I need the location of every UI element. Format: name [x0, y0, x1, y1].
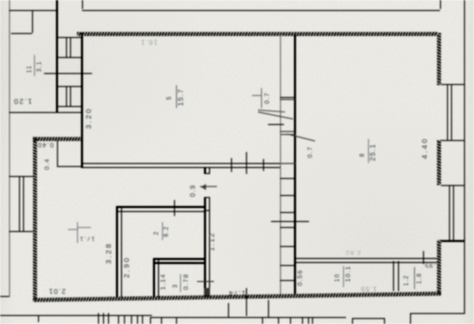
neighbor below window b1: [98, 313, 99, 324]
neighbor below stub d: [150, 318, 151, 324]
window1 glass: [66, 38, 67, 57]
tick y124: [268, 124, 284, 125]
window1 sill: [57, 57, 81, 58]
label 3.20: [85, 107, 92, 129]
neighbor below window c4: [137, 315, 138, 324]
long tick y221: [271, 221, 309, 222]
right window B top: [441, 185, 465, 186]
bottom neighbor line left: [0, 315, 152, 316]
right window A bottom: [441, 140, 464, 141]
label 1.8/1.2: [414, 267, 415, 289]
right wall hatch bottom: [437, 240, 441, 294]
rung y227: [280, 227, 295, 228]
tick left of wall: [196, 262, 204, 263]
bottom dim 2.01: [48, 287, 66, 294]
label 0.40: [37, 141, 54, 148]
neighbor above: left stub: [82, 0, 83, 9]
top-left box top edge: [9, 10, 57, 11]
lower loggia glass: [19, 177, 20, 231]
room 1 label 17.1: [77, 222, 78, 243]
label 0.7 second: [307, 146, 314, 158]
bottom dim 1.74: [228, 289, 246, 296]
neighbor below stub h2: [312, 317, 313, 324]
top hatched wall: [77, 32, 437, 36]
rung y246: [280, 246, 295, 247]
neighbor below stub h1: [308, 317, 309, 324]
lower loggia window top: [9, 176, 33, 177]
divider wall (double): [393, 261, 394, 291]
niche box left: [57, 140, 58, 166]
window2 top: [57, 86, 81, 87]
right window A glass: [447, 85, 448, 140]
sub-box bottom: [11, 33, 32, 34]
rung y195: [280, 195, 295, 196]
neighbor above: right stub: [440, 0, 441, 9]
rung y178: [280, 178, 295, 179]
door box1 top: [280, 99, 295, 100]
faint dim 1.55: [360, 285, 377, 292]
neighbor below stub e: [228, 303, 229, 318]
neighbor box B right: [384, 318, 385, 324]
hallway wall vertical (double, door gap): [204, 167, 206, 174]
lower loggia window sill: [9, 231, 33, 232]
label 3.28: [105, 242, 112, 264]
window2 glass: [66, 86, 67, 106]
right wall hatch top: [437, 33, 441, 85]
bottom-left corner stub: [0, 296, 9, 297]
bottom hatched wall: [33, 292, 441, 302]
label 2.90: [123, 256, 130, 278]
label 10.1: [343, 266, 344, 287]
label 0.7 first: [261, 88, 262, 108]
niche box bottom: [57, 166, 81, 167]
door ticks on wall: [231, 158, 232, 172]
rung y280: [280, 280, 295, 281]
step line y241: [441, 241, 464, 242]
rung y97: [280, 97, 295, 98]
neighbor below stub f: [268, 300, 269, 317]
tick left of 0.7: [252, 95, 261, 96]
small room top wall (double): [153, 258, 205, 260]
bottom neighbor line mid: [150, 317, 346, 318]
neighbor box B left: [352, 318, 353, 324]
door1 leader diagonal: [252, 86, 322, 158]
rung y265: [280, 265, 295, 266]
room 8 label 25.1: [368, 139, 369, 163]
neighbor below window g4: [302, 317, 303, 324]
sub-box vertical: [32, 11, 33, 33]
neighbor below window c3: [131, 315, 132, 324]
bathroom left wall (double): [116, 206, 118, 297]
neighbor box B top: [352, 318, 385, 319]
neighbor below window c1: [118, 315, 119, 324]
neighbor below window c5: [142, 315, 143, 324]
interior wall horizontal (double): [81, 163, 281, 165]
door box1 bottom: [280, 131, 295, 132]
right outer wall: [464, 0, 465, 314]
left bay outer wall: [56, 0, 58, 113]
label 16.1: [140, 38, 158, 45]
neighbor below window g1: [262, 317, 263, 324]
label 1.20: [13, 98, 32, 105]
big tick: [197, 281, 214, 282]
dimension tick x246: [246, 288, 247, 316]
left outer wall: [9, 0, 10, 297]
right wall hatch mid: [437, 140, 441, 185]
rung y212: [280, 212, 295, 213]
label 0.9 vertical: [190, 184, 197, 197]
room 2 label 8.2: [162, 222, 163, 240]
thick middle wall right line: [294, 35, 296, 294]
neighbor below stub a: [38, 315, 39, 322]
neighbor below window b2: [103, 313, 104, 324]
door box2 bottom: [281, 163, 296, 164]
dimension tick y73: [44, 73, 92, 74]
neighbor below window c2: [124, 315, 125, 324]
label 1.14: [160, 273, 167, 290]
small room left wall (double): [153, 258, 155, 297]
door box2 top: [281, 134, 296, 135]
right window B glass: [449, 186, 450, 240]
thick middle wall left line: [280, 35, 281, 294]
tick x423: [423, 251, 424, 264]
tick on bathroom wall: [174, 200, 175, 216]
faint text above wall: [345, 248, 361, 255]
apartment left wall: [81, 33, 83, 167]
right window A top: [441, 84, 464, 85]
label 4.40: [421, 137, 428, 159]
door arrow 0.9: [200, 186, 217, 187]
label 1.12: [209, 232, 216, 251]
label 0.78 with bar: [180, 274, 181, 292]
neighbor below stub d2: [161, 317, 162, 324]
niche hatched top: [33, 137, 81, 141]
wall foot blob: [204, 288, 210, 297]
left hatched wall: [33, 137, 37, 300]
right window B bottom: [441, 240, 465, 241]
window bay top line: [57, 37, 81, 38]
room 5 label 15.7: [176, 85, 177, 108]
neighbor above: horizontal line: [82, 10, 440, 11]
window2 sill: [57, 106, 81, 107]
loggia bottom: [9, 112, 81, 113]
label 0.56 vertical: [297, 269, 304, 286]
bottom right step horizontal: [410, 313, 465, 314]
door2 leader diagonal: [285, 132, 319, 144]
bottom right step vertical: [410, 313, 411, 324]
label 1.95: [424, 261, 440, 268]
bottom-right rooms top wall (double): [295, 258, 437, 260]
neighbor below window b3: [108, 313, 109, 324]
neighbor below window g2: [278, 317, 279, 324]
label 0.4 vertical: [44, 158, 51, 170]
neighbor below stub d3: [176, 317, 177, 324]
bathroom top wall (double): [116, 206, 205, 208]
label 11/3.1: [34, 55, 35, 76]
neighbor below window g3: [290, 317, 291, 324]
